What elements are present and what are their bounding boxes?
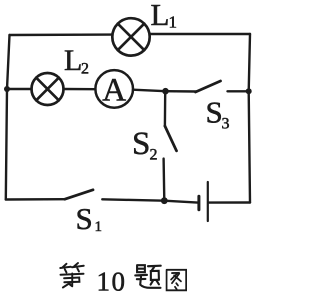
wire ammeter to node B bbox=[133, 90, 166, 92]
wire battery to bottom-right corner bbox=[209, 201, 250, 204]
svg-text:10: 10 bbox=[97, 267, 127, 297]
switch S3 bbox=[166, 81, 249, 92]
svg-text:L: L bbox=[151, 0, 170, 32]
svg-text:L: L bbox=[64, 44, 82, 77]
node C junction dot bbox=[246, 88, 252, 94]
wire node A to lamp L2 bbox=[7, 88, 32, 90]
svg-text:1: 1 bbox=[169, 13, 178, 32]
label S1 bbox=[76, 201, 103, 236]
wire S1 to node D bbox=[102, 199, 164, 200]
svg-text:S: S bbox=[76, 201, 93, 236]
lamp L2 bbox=[32, 73, 64, 105]
svg-text:2: 2 bbox=[81, 61, 89, 78]
wire bottom-left to switch S1 bbox=[6, 198, 65, 201]
caption 题 bbox=[135, 265, 160, 288]
svg-text:1: 1 bbox=[95, 219, 103, 235]
label S2 bbox=[132, 126, 158, 164]
battery BT1 bbox=[199, 182, 208, 221]
wire lamp L2 to ammeter bbox=[64, 88, 96, 91]
wire right vertical bbox=[249, 34, 250, 203]
wire left vertical bbox=[6, 35, 10, 200]
caption 图 bbox=[167, 270, 187, 290]
switch S1 bbox=[65, 190, 93, 199]
caption 第 bbox=[60, 263, 84, 288]
svg-text:S: S bbox=[206, 94, 223, 129]
svg-text:S: S bbox=[132, 126, 150, 162]
label L2 bbox=[64, 44, 89, 78]
svg-text:3: 3 bbox=[222, 116, 230, 133]
svg-text:A: A bbox=[102, 73, 126, 109]
label S3 bbox=[206, 94, 230, 132]
lamp L1 bbox=[112, 18, 149, 55]
wire node D to battery bbox=[164, 201, 197, 203]
node D junction dot bbox=[161, 197, 168, 204]
label L1 bbox=[151, 0, 178, 32]
svg-text:2: 2 bbox=[150, 147, 158, 164]
switch S2 bbox=[164, 92, 177, 201]
ammeter U1 bbox=[95, 70, 133, 108]
wire top-left to lamp L1 bbox=[10, 33, 113, 36]
wire lamp L1 to top-right corner bbox=[150, 33, 250, 35]
node B junction dot bbox=[162, 88, 169, 95]
node A junction dot bbox=[4, 86, 10, 92]
